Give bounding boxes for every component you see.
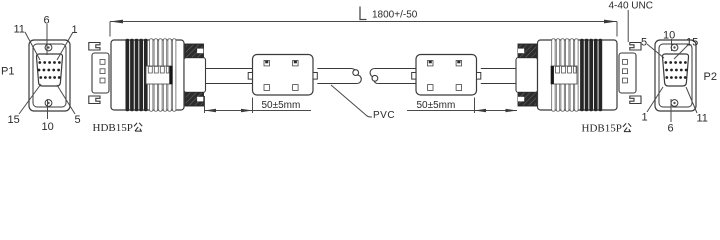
P1 leader 15 [19, 84, 41, 114]
right HDB15P CJK male symbol [623, 123, 631, 131]
svg-text:1: 1 [642, 112, 648, 124]
svg-text:50±5mm: 50±5mm [262, 100, 301, 111]
right connector label panel [551, 66, 577, 84]
P2 top screw hole [671, 44, 678, 51]
dimension 50±5mm right: extension line [474, 98, 476, 114]
P1 top screw hole [45, 44, 52, 51]
left connector dark grip ribs [126, 39, 148, 112]
P1 bottom screw hole [45, 100, 52, 107]
svg-text:50±5mm: 50±5mm [417, 100, 456, 111]
P1 leader 1 [57, 32, 73, 60]
P2 leader 10 [671, 39, 673, 51]
P2 leader 1 [647, 87, 663, 112]
svg-text:P1: P1 [1, 66, 14, 78]
right connector panel tabs [556, 66, 577, 73]
P1 front view inner shell [33, 44, 66, 107]
P2 front view inner shell [659, 44, 692, 107]
right connector molded body [538, 40, 618, 110]
dimension 1800 left extension line [109, 22, 111, 37]
leader 4-40 UNC [627, 10, 629, 42]
dimension 50±5mm right: line [407, 110, 517, 112]
dimension 50±5mm left arrowheads [205, 109, 217, 112]
ferrite 1 right tab [313, 73, 317, 80]
left connector knurled nut bottom [185, 92, 203, 105]
ferrite 2 top latches [428, 61, 434, 66]
dimension 1800+/-50 line [110, 21, 617, 23]
left HDB15P CJK male symbol [134, 123, 142, 131]
ferrite 2 left tab [412, 73, 416, 80]
cable segment 2 [317, 68, 350, 70]
P1 front view outer shell [29, 40, 70, 111]
right connector rear boot outline [518, 44, 537, 106]
svg-text:11: 11 [697, 113, 708, 125]
P2 D-sub shell [662, 54, 688, 86]
svg-text:4-40 UNC: 4-40 UNC [609, 1, 653, 12]
left connector side view: D shell [92, 53, 109, 93]
left connector panel tabs [148, 66, 169, 73]
left connector light grip ribs [150, 39, 176, 112]
ferrite 1 bottom latches [264, 85, 270, 91]
ferrite block 1 [253, 55, 314, 96]
svg-text:6: 6 [668, 123, 674, 135]
left connector rear boot outline [185, 44, 204, 106]
svg-text:10: 10 [42, 121, 54, 133]
P1 leader 6 [46, 24, 48, 55]
dimension tick mark [360, 7, 367, 20]
ferrite 2 bottom latches [428, 85, 434, 91]
P1 leader 5 [57, 85, 75, 114]
dimension 1800 right arrowhead [604, 20, 617, 24]
svg-text:5: 5 [75, 114, 81, 126]
P2 leader 6 [670, 99, 672, 122]
dimension 50±5mm left: line [205, 110, 312, 112]
svg-text:P2: P2 [704, 71, 717, 83]
P1 leader 11 [25, 32, 40, 60]
dimension 50±5mm right arrowheads [475, 109, 487, 112]
P2 front view outer shell [655, 40, 696, 111]
ferrite 1 left tab [248, 73, 252, 80]
P2 pins row 2 [665, 69, 687, 72]
left connector side view: bottom thumbscrew boss [89, 96, 100, 104]
left connector knurled nut top [185, 44, 203, 57]
right connector top thumbscrew boss [630, 43, 641, 51]
right connector knurled nut top [519, 44, 537, 57]
P2 pins row 1 [664, 61, 686, 64]
ferrite 1 top latches [264, 61, 270, 66]
svg-text:10: 10 [663, 30, 675, 42]
svg-text:11: 11 [14, 24, 25, 36]
cable segment 3 [374, 68, 416, 70]
right connector shell contacts [623, 60, 628, 65]
right connector light grip ribs [552, 39, 578, 112]
P1 pins row 1 [38, 61, 60, 64]
svg-text:HDB15P: HDB15P [93, 122, 133, 134]
left connector molded body [111, 40, 184, 110]
cable break left curl [351, 69, 355, 71]
dimension 1800 left arrowhead [110, 20, 123, 24]
left connector label panel [146, 66, 172, 84]
svg-text:1800+/-50: 1800+/-50 [372, 10, 418, 21]
P2 leader 5 [647, 44, 664, 58]
PVC leader [331, 85, 372, 117]
cable segment 1 [206, 68, 253, 70]
dimension 1800 right extension line [616, 22, 618, 37]
ferrite 2 right tab [477, 73, 481, 80]
right connector D shell [619, 53, 636, 93]
svg-text:15: 15 [686, 37, 698, 49]
svg-text:1: 1 [72, 24, 78, 36]
left connector side view: top thumbscrew boss [89, 43, 100, 51]
cable break right curl [370, 69, 374, 78]
left connector shell contacts [100, 60, 105, 65]
svg-text:HDB15P: HDB15P [582, 123, 622, 135]
right connector bottom thumbscrew boss [630, 96, 641, 104]
right connector knurled nut bottom [519, 92, 537, 105]
dimension 50±5mm left: extension lines [204, 96, 206, 113]
P2 leader 11 [686, 87, 697, 113]
P1 leader 10 [47, 99, 49, 119]
P2 leader 15 [674, 45, 688, 59]
svg-text:PVC: PVC [373, 110, 395, 121]
right connector dark grip ribs [580, 39, 602, 112]
P2 bottom screw hole [671, 100, 678, 107]
wrapper group [1, 1, 717, 135]
P1 pins row 3 [39, 76, 60, 79]
ferrite block 2 [416, 55, 477, 96]
P2 pins row 3 [665, 76, 686, 79]
svg-text:15: 15 [8, 114, 20, 126]
P1 pins row 2 [38, 69, 60, 72]
cable segment 4 [481, 68, 516, 70]
svg-text:5: 5 [641, 37, 647, 49]
P1 D-sub shell [36, 54, 62, 86]
